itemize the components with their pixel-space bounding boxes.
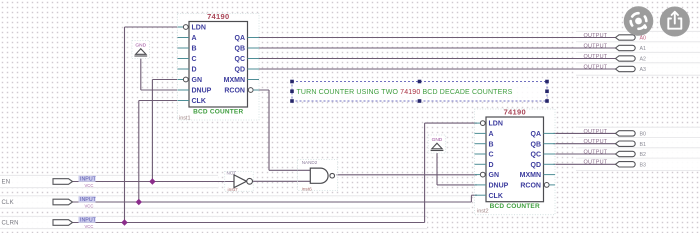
svg-text:MXMN: MXMN	[520, 172, 541, 179]
wire: EN input row	[73, 181, 234, 183]
svg-text:B: B	[489, 141, 494, 148]
wire: U1 QC to output A2	[248, 58, 616, 60]
toolbar button: share icon	[660, 7, 690, 37]
wire: GND1 to U1 DNUP horizontal	[141, 89, 177, 91]
svg-text:VCC: VCC	[85, 224, 94, 229]
junction on EN net	[149, 178, 155, 184]
wire: CLRN to U1 LDN horizontal	[125, 26, 178, 28]
svg-text:inst7: inst7	[228, 187, 238, 193]
svg-text:QA: QA	[531, 131, 542, 138]
svg-text:DNUP: DNUP	[192, 88, 212, 95]
IC U1: 74190 BCD counter (inst1)	[178, 14, 260, 121]
svg-text:OUTPUT: OUTPUT	[584, 43, 608, 49]
svg-text:A3: A3	[640, 67, 647, 73]
svg-text:D: D	[489, 162, 494, 169]
svg-text:B1: B1	[640, 142, 647, 148]
svg-text:QA: QA	[235, 35, 246, 42]
svg-text:C: C	[489, 152, 494, 159]
svg-text:GND: GND	[432, 137, 443, 143]
svg-text:OUTPUT: OUTPUT	[584, 139, 608, 145]
wire: U2 QA to output B0	[554, 132, 616, 134]
wire: U1 GN horizontal	[152, 79, 177, 81]
toolbar button: settings/aperture icon	[624, 6, 654, 36]
svg-text:OUTPUT: OUTPUT	[584, 160, 608, 166]
svg-text:RCON: RCON	[224, 88, 245, 95]
svg-text:QD: QD	[235, 67, 246, 74]
svg-text:OUTPUT: OUTPUT	[584, 33, 608, 39]
svg-text:QB: QB	[531, 141, 542, 148]
svg-text:A2: A2	[640, 57, 647, 63]
svg-text:LDN: LDN	[489, 121, 503, 128]
inverter NOT gate (inst7)	[225, 171, 254, 193]
svg-text:RCON: RCON	[520, 183, 541, 190]
power symbol GND (to U2 DNUP)	[428, 135, 446, 153]
comment text box (selected)	[292, 82, 547, 102]
svg-text:B3: B3	[640, 163, 647, 169]
IC U2: 74190 BCD counter (inst2)	[475, 109, 556, 215]
wire: EN net vertical to U1 GN	[151, 80, 153, 182]
junction on CLK net	[136, 199, 142, 205]
svg-text:NAND2: NAND2	[302, 160, 318, 165]
svg-text:NOT: NOT	[227, 171, 237, 176]
svg-text:CLRN: CLRN	[2, 221, 19, 227]
svg-text:OUTPUT: OUTPUT	[584, 64, 608, 70]
wire: U2 QC to output B2	[554, 153, 616, 155]
svg-text:inst2: inst2	[477, 209, 489, 215]
svg-text:TURN COUNTER USING TWO 74190 B: TURN COUNTER USING TWO 74190 BCD DECADE …	[297, 89, 513, 96]
wire-row halo bands (input rows EN/CLK/CLRN and output rows)	[0, 175, 218, 187]
wire: U1 CLK horizontal	[139, 100, 177, 102]
svg-text:MXMN: MXMN	[224, 77, 245, 84]
svg-text:74190: 74190	[504, 108, 526, 117]
NAND2 gate (inst6)	[298, 160, 338, 193]
svg-text:VCC: VCC	[85, 204, 94, 209]
wire: CLRN vertical up to U2 LDN	[424, 123, 426, 222]
svg-text:QC: QC	[531, 152, 542, 159]
svg-text:EN: EN	[2, 180, 11, 186]
svg-text:INPUT: INPUT	[80, 218, 97, 224]
symbol background fills	[132, 14, 556, 216]
wire: CLK net vertical to U1 CLK	[138, 101, 140, 203]
svg-text:74190: 74190	[207, 12, 229, 21]
svg-text:QD: QD	[531, 162, 542, 169]
svg-text:B0: B0	[640, 132, 647, 138]
svg-text:CLK: CLK	[489, 193, 503, 200]
wire: NOT output to NAND lower input	[253, 180, 310, 182]
wire: GND1 to U1 DNUP vertical	[140, 56, 142, 91]
wire: CLK step up to U2 CLK	[470, 195, 472, 202]
svg-text:B2: B2	[640, 152, 647, 158]
svg-text:inst1: inst1	[179, 116, 191, 122]
svg-text:VCC: VCC	[85, 183, 94, 188]
svg-text:D: D	[192, 67, 197, 74]
svg-text:B: B	[192, 46, 197, 53]
wire: CLRN input row	[73, 222, 425, 224]
wire: NAND output to U2 GN	[337, 174, 478, 176]
svg-text:GN: GN	[192, 77, 203, 84]
svg-text:C: C	[192, 56, 197, 63]
power symbol GND (to U1 DNUP)	[132, 41, 150, 59]
wire: U1 QB to output A1	[248, 47, 616, 49]
wire: U2 QB to output B1	[554, 143, 616, 145]
svg-text:OUTPUT: OUTPUT	[584, 54, 608, 60]
svg-text:BCD COUNTER: BCD COUNTER	[193, 109, 243, 116]
svg-text:OUTPUT: OUTPUT	[584, 129, 608, 135]
wire: U2 QD to output B3	[554, 163, 616, 165]
svg-text:A: A	[489, 131, 494, 138]
svg-text:GN: GN	[489, 172, 500, 179]
wire: CLRN net vertical to U1 LDN	[124, 27, 126, 223]
svg-text:A: A	[192, 35, 197, 42]
svg-text:OUTPUT: OUTPUT	[584, 149, 608, 155]
wire: U1 QD to output A3	[248, 68, 616, 70]
wire: U1 RCON to NAND upper input	[253, 89, 270, 91]
svg-text:BCD COUNTER: BCD COUNTER	[490, 203, 540, 210]
wire: U1 QA to output A0	[248, 37, 616, 39]
svg-text:GND: GND	[135, 43, 146, 49]
svg-text:QB: QB	[235, 46, 246, 53]
wire: GND2 to U2 DNUP vertical	[436, 151, 438, 185]
svg-text:INPUT: INPUT	[80, 197, 97, 203]
wire: GND2 to U2 DNUP horizontal	[437, 184, 477, 186]
svg-text:inst6: inst6	[302, 187, 312, 193]
svg-text:A0: A0	[640, 36, 647, 42]
svg-text:INPUT: INPUT	[80, 177, 97, 183]
wire: CLK input row	[73, 201, 472, 203]
svg-text:CLK: CLK	[2, 200, 14, 206]
svg-text:CLK: CLK	[192, 98, 206, 105]
svg-text:QC: QC	[235, 56, 246, 63]
svg-text:A1: A1	[640, 46, 647, 52]
junction on CLRN net	[121, 219, 127, 225]
svg-text:LDN: LDN	[192, 25, 206, 32]
svg-text:DNUP: DNUP	[489, 183, 509, 190]
